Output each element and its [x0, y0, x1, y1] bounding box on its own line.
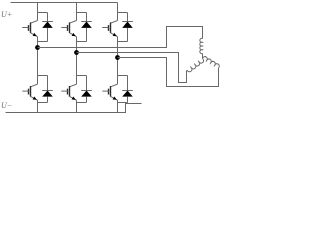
wire coil A tail — [202, 54, 204, 59]
label U+ — [1, 10, 12, 19]
wire leg3 midpoint — [117, 42, 119, 76]
transistor V4 (bottom IGBT leg 1) — [22, 76, 37, 113]
node U+ rail — [11, 2, 118, 4]
label U- — [1, 101, 12, 110]
transistor V3 (top IGBT leg 2) — [61, 3, 76, 42]
transistor V2 (bottom IGBT leg 3) — [102, 76, 117, 113]
diode VD3 (antiparallel, leg 2 top) — [77, 13, 92, 42]
diode VD5 (antiparallel, leg 3 top) — [118, 13, 133, 42]
diode VD6 (antiparallel, leg 2 bottom) — [77, 76, 92, 103]
diode VD2 (antiparallel, leg 3 bottom) — [118, 76, 133, 103]
wire leg2 midpoint — [76, 42, 78, 76]
transistor V6 (bottom IGBT leg 2) — [61, 76, 76, 113]
inductor winding phase A (vertical) — [200, 38, 203, 53]
diode VD1 (antiparallel, leg 1 top) — [38, 13, 53, 42]
diode VD4 (antiparallel, leg 1 bottom) — [38, 76, 53, 103]
wire phase A to motor — [38, 27, 203, 48]
node B junction dot — [74, 50, 79, 55]
node C junction dot — [115, 55, 120, 60]
inductor winding phase C (lower-right diagonal) — [202, 56, 220, 68]
inductor winding phase B (lower-left diagonal) — [187, 58, 205, 72]
node U- rail — [6, 104, 142, 113]
transistor V5 (top IGBT leg 3) — [102, 3, 117, 42]
node A junction dot — [35, 45, 40, 50]
transistor V1 (top IGBT leg 1) — [22, 3, 37, 42]
wire phase B to motor — [77, 53, 187, 83]
wire leg1 midpoint — [37, 42, 39, 76]
wire phase C to motor — [118, 58, 219, 87]
